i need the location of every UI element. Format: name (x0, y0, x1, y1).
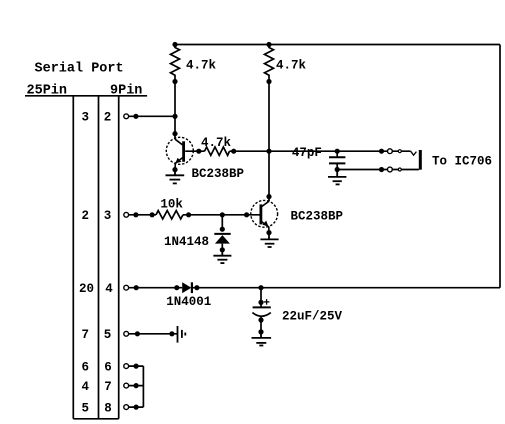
svg-text:8: 8 (104, 401, 112, 415)
node junction RTS/collector (172, 114, 177, 119)
transistor Q1 BC238BP body circle (166, 137, 193, 164)
svg-text:2: 2 (104, 111, 112, 125)
resistor R4 10k (156, 211, 183, 219)
node Q2 emitter (266, 230, 271, 235)
wire serial pin 7/5 to chassis ground (126, 333, 177, 335)
resistor R1 4.7k (vertical) (171, 45, 180, 82)
svg-text:5: 5 (81, 401, 89, 415)
wire Q1 base to resistor R3 (185, 150, 204, 152)
connector pin 6/6 open circle (124, 364, 129, 369)
transistor Q2 emitter stroke (261, 222, 269, 233)
node Q1 collector lead (172, 131, 177, 136)
node C1 bottom (335, 167, 340, 172)
node R1 bottom (172, 79, 177, 84)
connector pin 2/3 open circle (124, 212, 129, 217)
svg-text:47pF: 47pF (292, 146, 322, 160)
node junction R2 rail / signal (266, 149, 271, 154)
svg-text:3: 3 (81, 111, 89, 125)
node R3 right lead (231, 149, 236, 154)
transistor Q1 emitter stroke (175, 157, 184, 170)
wire serial pin 5/8 (126, 406, 143, 408)
node Q2 collector (266, 194, 271, 199)
svg-text:6: 6 (81, 360, 89, 374)
capacitor C2 22uF/25V (252, 288, 270, 335)
node IC706 top lead (379, 149, 384, 154)
transistor Q2 collector stroke (262, 201, 269, 206)
wire serial pin 20/4 to diode D2 (126, 287, 182, 289)
wire serial pin 2/3 to 10k resistor (126, 214, 156, 216)
resistor R3 4.7k (horizontal) (205, 147, 230, 155)
connector pin 7/5 dot (135, 331, 140, 336)
plug tip contact notch (411, 151, 417, 155)
wire serial pin 3/2 to Q1 collector node (126, 115, 175, 117)
diode D1 1N4148 (214, 215, 230, 253)
node 10k left lead (150, 212, 155, 217)
connector pin 4/7 open circle (124, 383, 129, 388)
connector IC706 top small circle (398, 150, 401, 153)
svg-text:1N4001: 1N4001 (166, 295, 211, 309)
connector pin 3/2 dot (133, 114, 138, 119)
connector pin 6/6 dot (134, 364, 139, 369)
node IC706 bottom lead (379, 167, 384, 172)
ground under D1 (213, 250, 231, 263)
svg-text:22uF/25V: 22uF/25V (282, 310, 343, 324)
connector table column line 3 (118, 96, 120, 419)
connector pin 5/8 dot (134, 405, 139, 410)
node ground lead pin 7/5 (169, 331, 174, 336)
node Q1 emitter (172, 167, 177, 172)
wire serial pin 6/6 (126, 365, 143, 367)
transistor Q1 collector stroke (175, 139, 183, 145)
connector IC706 top open circle (388, 149, 393, 154)
resistor R2 4.7k (vertical) (265, 45, 274, 82)
transistor Q2 base bar (259, 204, 262, 224)
wire R3 to C1 junction and connector (230, 150, 411, 152)
capacitor C1 47pF (329, 149, 345, 170)
svg-text:10k: 10k (160, 198, 183, 212)
wire right rail (499, 45, 501, 288)
connector table header line (25, 95, 147, 97)
svg-text:BC238BP: BC238BP (192, 167, 245, 181)
transistor Q2 emitter arrow (262, 221, 268, 227)
node junction C2 tap (258, 285, 263, 290)
wire handshake bus (142, 366, 144, 407)
node 10k right lead (186, 212, 191, 217)
node D2 anode lead (174, 285, 179, 290)
node R1 top (172, 42, 177, 47)
svg-text:20: 20 (79, 282, 94, 296)
node junction D1 tap (220, 212, 225, 217)
transistor Q1 emitter arrow (175, 158, 181, 164)
svg-text:7: 7 (81, 328, 89, 342)
svg-text:3: 3 (104, 209, 112, 223)
wire serial pin 4/7 (126, 385, 143, 387)
ground under Q1 (166, 170, 185, 184)
svg-text:2: 2 (81, 209, 89, 223)
svg-text:BC238BP: BC238BP (291, 209, 344, 223)
node R2 bottom (266, 79, 271, 84)
svg-text:4.7k: 4.7k (186, 59, 217, 73)
connector pin 20/4 open circle (124, 285, 129, 290)
svg-text:7: 7 (104, 380, 112, 394)
svg-text:4: 4 (81, 380, 89, 394)
wire R1 bottom to Q1 collector (174, 82, 176, 140)
svg-text:4.7k: 4.7k (276, 59, 307, 73)
node D2 cathode lead (194, 285, 199, 290)
connector pin 4/7 dot (134, 383, 139, 388)
ground rotated at pin 7/5 (178, 326, 186, 343)
connector pin 3/2 open circle (124, 114, 129, 119)
connector pin 2/3 dot (133, 212, 138, 217)
wire R2 bottom to Q2 collector (268, 82, 270, 202)
connector table column line 2 (98, 96, 100, 419)
wire D2 cathode +V row (192, 287, 500, 289)
connector table bottom line (73, 418, 118, 420)
connector IC706 bottom open circle (388, 167, 393, 172)
connector pin 5/8 open circle (124, 405, 129, 410)
connector table column line 1 (72, 96, 74, 419)
connector pin 20/4 dot (134, 285, 139, 290)
svg-text:Serial Port: Serial Port (35, 62, 124, 77)
connector IC706 bottom small circle (398, 168, 401, 171)
svg-text:6: 6 (104, 360, 112, 374)
svg-text:4: 4 (105, 282, 113, 296)
svg-text:1N4148: 1N4148 (164, 235, 209, 249)
plug body bar (419, 150, 422, 170)
svg-text:4.7k: 4.7k (201, 136, 232, 150)
wire 10k to Q2 base (183, 214, 260, 216)
node Q2 base lead (244, 212, 249, 217)
transistor Q1 base bar (182, 141, 185, 162)
ground under C1 (328, 170, 346, 185)
svg-text:5: 5 (104, 328, 112, 342)
diode D2 1N4001 (182, 282, 192, 293)
ground under Q2 (260, 233, 278, 247)
wire IC706 ground lead (337, 169, 419, 171)
node Q1 base lead (196, 149, 201, 154)
connector pin 7/5 open circle (124, 331, 129, 336)
ground under C2 (252, 332, 272, 346)
transistor Q2 BC238BP body circle (251, 200, 278, 227)
svg-text:To IC706: To IC706 (432, 155, 492, 169)
node R2 top (266, 42, 271, 47)
wire top +V rail (175, 44, 500, 46)
